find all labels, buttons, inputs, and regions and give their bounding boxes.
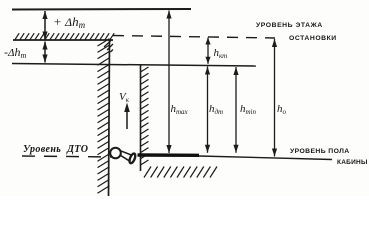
stop floor level dashed line — [113, 36, 275, 39]
car doorway wall (hatched) — [141, 65, 149, 172]
car speed arrow (up) — [124, 103, 130, 130]
dimension arrow +dhm — [42, 11, 47, 40]
landing floor sill line — [13, 39, 113, 41]
car floor hatching below — [144, 167, 217, 178]
car floor thick line — [138, 153, 200, 157]
car floor thin line — [199, 156, 332, 160]
svg-text:КАБИНЫ: КАБИНЫ — [337, 159, 368, 166]
top tolerance line (+dhm upper limit) — [12, 8, 191, 11]
dimension line hdt — [205, 67, 210, 153]
dimension line hmin — [233, 67, 238, 153]
dimension line hkt — [205, 38, 210, 64]
corner hatch at sill end — [104, 41, 113, 53]
precise-stop sensor DTO (roller lever on wall) — [110, 148, 136, 164]
svg-text:УРОВЕНЬ ПОЛА: УРОВЕНЬ ПОЛА — [290, 148, 350, 155]
dimension arrow -dhm — [42, 42, 47, 63]
dimension line h0 — [272, 39, 277, 157]
svg-text:ОСТАНОВКИ: ОСТАНОВКИ — [289, 35, 337, 42]
dimension line hmax — [166, 11, 171, 154]
svg-text:Уровень ДТО: Уровень ДТО — [23, 144, 88, 155]
shaft wall (left, hatched) — [98, 39, 110, 196]
svg-text:УРОВЕНЬ ЭТАЖА: УРОВЕНЬ ЭТАЖА — [256, 22, 323, 29]
landing floor hatching — [15, 33, 114, 39]
lower tolerance line (-dhm limit) — [12, 64, 256, 67]
DTO level dashed line — [22, 156, 113, 157]
